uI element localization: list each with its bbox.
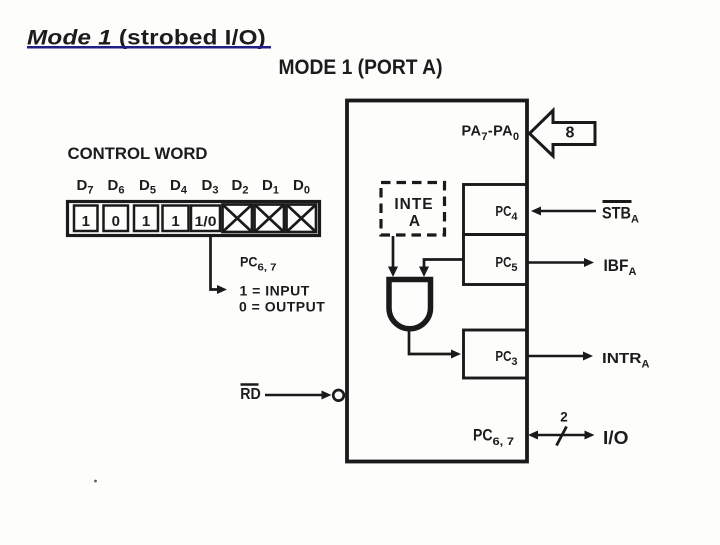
- svg-text:MODE 1 (PORT A): MODE 1 (PORT A): [279, 55, 443, 79]
- svg-text:CONTROL WORD: CONTROL WORD: [68, 145, 208, 163]
- arrowhead IBF_A: [584, 258, 594, 267]
- bit cell D5 value 1: [134, 206, 158, 232]
- bit cell D2 (don't care X): [223, 205, 253, 233]
- PC5 box: [464, 235, 528, 285]
- arrowhead INTR_A: [583, 352, 593, 361]
- page title "Mode 1 (strobed I/O)": [27, 25, 271, 49]
- svg-text:1: 1: [171, 213, 179, 230]
- svg-text:D7: D7: [77, 177, 94, 197]
- bidirectional I/O wire: [534, 434, 588, 437]
- bit cell D0 (don't care X): [287, 205, 317, 233]
- arrowhead into PC3: [451, 350, 461, 359]
- arrowhead RD: [322, 391, 332, 400]
- svg-text:INTRA: INTRA: [602, 351, 650, 371]
- arrowhead right (to I/O): [585, 431, 595, 440]
- wire IBF_A from PC5: [528, 261, 585, 264]
- bit cell D3 value 1/0: [191, 206, 220, 232]
- svg-text:1: 1: [82, 213, 90, 230]
- label STB_A (active low): [602, 202, 639, 226]
- INTE A dashed box: [381, 183, 445, 236]
- svg-text:RD: RD: [240, 386, 260, 403]
- svg-text:8: 8: [566, 125, 575, 142]
- wire PC5 to AND gate right input: [424, 260, 463, 269]
- RD signal label (active low): [240, 385, 260, 404]
- svg-text:PA7-PA0: PA7-PA0: [462, 124, 520, 144]
- chip outline (8255 Port A block): [347, 101, 527, 462]
- svg-text:1: 1: [142, 213, 150, 230]
- bit cell D1 (don't care X): [255, 205, 285, 233]
- svg-text:PC6, 7: PC6, 7: [473, 427, 514, 449]
- arrowhead toward annotation: [217, 285, 227, 294]
- bit labels D7..D0: [77, 177, 310, 197]
- svg-text:2: 2: [560, 410, 568, 425]
- svg-text:1 = INPUT: 1 = INPUT: [240, 283, 310, 299]
- svg-text:A: A: [409, 213, 420, 230]
- inversion bubble at chip edge: [333, 390, 344, 401]
- svg-text:D0: D0: [293, 177, 310, 197]
- wire INTE A to AND gate left input: [392, 236, 395, 268]
- arrowhead into AND left input: [388, 267, 398, 278]
- bus width slash: [557, 427, 567, 446]
- svg-text:PC4: PC4: [495, 203, 518, 223]
- svg-text:D2: D2: [232, 177, 249, 197]
- svg-text:D6: D6: [108, 177, 125, 197]
- svg-text:D1: D1: [262, 177, 279, 197]
- arrowhead left (into chip): [528, 431, 538, 440]
- svg-text:PC3: PC3: [495, 348, 517, 368]
- PC4 box: [464, 185, 528, 235]
- svg-text:I/O: I/O: [603, 428, 629, 448]
- svg-text:D4: D4: [170, 177, 188, 197]
- svg-text:D5: D5: [139, 177, 156, 197]
- wire AND gate output to PC3: [409, 329, 452, 354]
- svg-text:1/0: 1/0: [195, 213, 217, 229]
- stray scan dot: [94, 480, 97, 483]
- AND gate (inputs INTE, IBF): [389, 280, 431, 329]
- wire from bit D3 down to annotation: [211, 237, 220, 290]
- svg-text:PC5: PC5: [495, 254, 517, 274]
- PC3 box: [464, 330, 528, 378]
- 8-bit bus block arrow: [530, 111, 596, 157]
- wire RD to chip: [265, 394, 322, 397]
- arrowhead STB_A: [531, 207, 541, 216]
- svg-text:INTE: INTE: [394, 196, 433, 213]
- svg-text:Mode 1 (strobed I/O): Mode 1 (strobed I/O): [27, 25, 266, 49]
- control word register outer box: [68, 202, 320, 236]
- svg-text:D3: D3: [202, 177, 219, 197]
- svg-text:0 = OUTPUT: 0 = OUTPUT: [239, 299, 325, 315]
- svg-text:0: 0: [112, 213, 120, 230]
- arrowhead into AND right input: [419, 267, 429, 278]
- bit cell D6 value 0: [104, 206, 129, 232]
- svg-text:STBA: STBA: [602, 204, 639, 226]
- svg-text:IBFA: IBFA: [604, 256, 637, 278]
- bit cell D4 value 1: [163, 206, 189, 232]
- wire INTR_A from PC3: [528, 355, 584, 358]
- bit cell D7 value 1: [74, 206, 98, 232]
- wire STB_A into PC4: [537, 210, 596, 213]
- svg-text:PC6, 7: PC6, 7: [240, 254, 277, 274]
